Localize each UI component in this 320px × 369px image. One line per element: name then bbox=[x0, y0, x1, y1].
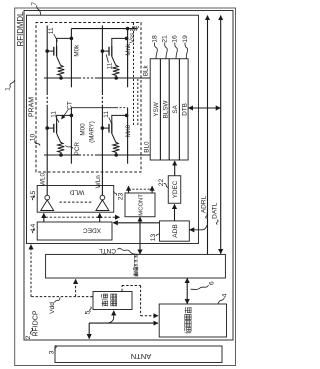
svg-text:7: 7 bbox=[31, 2, 38, 6]
leader 11 to Mnk transistor bbox=[106, 55, 108, 63]
dashed connector of MCONT output arrows bbox=[129, 188, 153, 190]
arrow YDEC to column block bbox=[174, 161, 176, 175]
YDEC box 22 bbox=[168, 176, 181, 204]
memory cell Mn0: bitline contact dot bbox=[114, 153, 118, 157]
source rail of cells Mn0 row bbox=[127, 108, 129, 164]
Vdd dashed arrow into RFIDMDL bbox=[30, 245, 32, 297]
leader from 3 to ANTN box bbox=[55, 345, 57, 350]
RFIDCP chip box 2 bbox=[24, 11, 233, 341]
RFIDMDL module box 7 bbox=[27, 15, 199, 243]
svg-text:XDEC: XDEC bbox=[83, 227, 102, 234]
leader Vdd to trunk bbox=[55, 297, 61, 302]
Vss line right column bbox=[71, 28, 136, 30]
memory cell M0k: phase change resistor PCR bbox=[57, 56, 65, 78]
row divider BLSW/SA bbox=[168, 59, 170, 160]
memory cell M0k: drain dot on source rail bbox=[70, 37, 74, 41]
leader from 23 to WLD box bottom bbox=[114, 191, 117, 195]
arrow ADB to YDEC bbox=[174, 204, 176, 220]
memory cell Mn0: gate dot on word line bbox=[101, 126, 105, 130]
memory cell M00: drain lead to source rail bbox=[57, 115, 72, 123]
svg-text:BLk: BLk bbox=[143, 64, 150, 76]
svg-text:11: 11 bbox=[50, 111, 57, 118]
junction dot Mnk rail on Vss line bbox=[126, 27, 130, 31]
svg-text:PRAM: PRAM bbox=[28, 97, 35, 117]
memory cell Mn0: gate stub to word line bbox=[102, 127, 109, 129]
memory cell M00: gate stub to word line bbox=[47, 127, 54, 129]
bit line BLk bbox=[44, 77, 79, 79]
svg-text:2: 2 bbox=[25, 335, 32, 339]
double arrow 6 control logic to transceiver bbox=[186, 278, 188, 303]
svg-text:BLSW: BLSW bbox=[162, 100, 169, 118]
svg-text:6: 6 bbox=[209, 281, 216, 285]
driver output circle WLn bbox=[100, 195, 105, 200]
leader 11 to Mn0 transistor bbox=[109, 118, 112, 124]
memory cell Mn0: transistor gate bar bbox=[108, 124, 110, 133]
svg-text:SA: SA bbox=[172, 104, 179, 113]
antenna box ANTN 3 bbox=[55, 346, 222, 363]
MCONT output arrow upper bbox=[128, 186, 130, 192]
svg-text:Vdd: Vdd bbox=[49, 302, 56, 314]
svg-text:Vss: Vss bbox=[129, 33, 136, 44]
tilde on DATL label bbox=[216, 220, 218, 225]
arrow XDEC to WLD lower bbox=[99, 213, 101, 221]
svg-text:CT: CT bbox=[67, 101, 74, 110]
svg-text:23: 23 bbox=[118, 193, 125, 201]
Vdd dashed branch into control logic bbox=[75, 279, 77, 296]
bit line BL0 bbox=[44, 154, 79, 156]
leader 11 to M00 transistor bbox=[56, 118, 59, 123]
arrow ADB to XDEC bbox=[113, 222, 159, 224]
svg-text:11: 11 bbox=[106, 62, 113, 69]
leader from 14 to XDEC box bbox=[32, 229, 34, 233]
row divider SA/DTB bbox=[178, 59, 180, 160]
memory cell Mn0: phase change resistor PCR bbox=[112, 133, 120, 155]
memory cell M0k: gate dot on word line bbox=[45, 49, 49, 53]
source rail of cells M00 row bbox=[70, 108, 72, 164]
driver output circle WL0 bbox=[45, 195, 50, 200]
leader from 13 to ADB box bbox=[156, 234, 160, 236]
memory cell Mnk: gate dot on word line bbox=[101, 49, 105, 53]
svg-text:RFIDMDL: RFIDMDL bbox=[16, 11, 25, 46]
memory cell Mnk: transistor channel bar bbox=[111, 46, 113, 56]
branch ADRL to ADB bbox=[190, 225, 208, 230]
svg-text:3: 3 bbox=[49, 350, 56, 354]
transceiver box 4 (RF unit) bbox=[159, 304, 226, 337]
svg-text:DATL: DATL bbox=[211, 202, 218, 219]
Vdd dashed arrow into transceiver bbox=[141, 315, 158, 317]
outer RFID device box 1 bbox=[15, 8, 236, 366]
svg-text:M0k: M0k bbox=[73, 44, 80, 57]
memory cell M00: phase change resistor PCR bbox=[57, 133, 65, 155]
MCONT box bbox=[125, 193, 155, 217]
svg-text:11: 11 bbox=[103, 111, 110, 118]
leader from 5 to power box corner bbox=[90, 307, 92, 312]
source rail of cells Mnk row bbox=[127, 29, 129, 88]
leader 19 to block bbox=[185, 43, 188, 59]
transceiver label (soujushin-bu) bbox=[185, 328, 191, 333]
dashed control line between XDEC and WLD bbox=[46, 216, 120, 218]
svg-text:DTB: DTB bbox=[181, 103, 188, 116]
leader 16 to block bbox=[175, 43, 178, 59]
Vdd dashed trunk from power circuit bbox=[31, 296, 93, 298]
Vdd dashed branch to transceiver: stub from power box bbox=[121, 286, 123, 292]
control logic box bbox=[46, 254, 226, 278]
Vdd dashed branch to transceiver: vertical jog bbox=[122, 285, 141, 287]
memory cell M00: gate dot on word line bbox=[45, 126, 49, 130]
leader from CNTL to wire bbox=[118, 248, 139, 254]
memory cell M0k: drain lead to source rail bbox=[57, 38, 72, 46]
memory cell M00: bitline contact dot bbox=[59, 153, 63, 157]
memory cell Mnk: bitline contact dot bbox=[114, 76, 118, 80]
memory cell Mnk: transistor gate bar bbox=[108, 47, 110, 56]
memory cell Mn0: drain lead to source rail bbox=[112, 115, 127, 123]
svg-text:WLD: WLD bbox=[69, 189, 84, 196]
svg-text:M00: M00 bbox=[80, 123, 87, 136]
CNTL wire MCONT to control logic bbox=[139, 217, 141, 254]
svg-text:4: 4 bbox=[222, 293, 229, 297]
Vss stub left column bbox=[71, 107, 116, 109]
svg-text:16: 16 bbox=[172, 35, 179, 43]
word line driver triangle WL0 bbox=[41, 200, 54, 211]
memory cell Mn0: drain dot on source rail bbox=[125, 114, 129, 118]
ADB box 13 bbox=[160, 221, 190, 241]
memory cell M0k: transistor channel bar bbox=[56, 46, 58, 56]
memory cell Mnk: drain dot on source rail bbox=[125, 37, 129, 41]
control logic label (seigyo logic) bbox=[134, 272, 138, 276]
tilde on ADRL label bbox=[206, 214, 208, 219]
leader from 6 to double arrow bbox=[191, 285, 209, 289]
leader arrow CT to cell contact bbox=[62, 109, 69, 119]
RF wire pad to transceiver bbox=[89, 322, 158, 324]
DATL bus line bbox=[220, 16, 222, 254]
svg-text:RFIDCP: RFIDCP bbox=[33, 310, 40, 336]
power circuit box 5 bbox=[93, 292, 132, 310]
dashed more-drivers mark inside WLD bbox=[60, 201, 93, 203]
WLD box 15 bbox=[37, 186, 114, 213]
svg-text:YSW: YSW bbox=[153, 102, 160, 116]
RF branch to power circuit bbox=[107, 311, 114, 323]
word line WLn bbox=[101, 107, 103, 195]
svg-text:19: 19 bbox=[182, 35, 189, 43]
svg-text:WL0: WL0 bbox=[40, 173, 47, 186]
svg-text:21: 21 bbox=[162, 35, 169, 43]
word line driver triangle WLn bbox=[96, 200, 109, 211]
column circuit block bbox=[150, 59, 188, 160]
leader from 15 to WLD box bbox=[32, 196, 34, 200]
svg-text:Mnk: Mnk bbox=[125, 43, 132, 56]
memory cell M00: transistor channel bar bbox=[56, 123, 58, 133]
leader PCR to resistor bbox=[65, 146, 73, 149]
svg-text:MCONT: MCONT bbox=[138, 194, 144, 216]
svg-text:22: 22 bbox=[158, 179, 165, 187]
leader 21 to block bbox=[165, 43, 168, 59]
PRAM dashed boundary box bbox=[36, 23, 141, 173]
leader from 10 into array bbox=[35, 142, 41, 146]
memory cell M00: transistor gate bar bbox=[53, 124, 55, 133]
svg-text:11: 11 bbox=[48, 27, 55, 34]
source rail of cells M0k row bbox=[70, 29, 72, 88]
leader 11 to M0k transistor bbox=[54, 34, 58, 42]
memory cell Mnk: phase change resistor PCR bbox=[112, 56, 120, 78]
svg-text:10: 10 bbox=[30, 134, 37, 142]
memory cell M0k: bitline contact dot bbox=[59, 76, 63, 80]
leader from 2 to RFIDCP text bbox=[30, 328, 32, 334]
word line WL0 bbox=[46, 107, 48, 195]
svg-text:CNTL: CNTL bbox=[99, 247, 116, 254]
ADRL bus line bbox=[207, 16, 209, 255]
memory cell M0k: transistor gate bar bbox=[53, 47, 55, 56]
svg-text:BL0: BL0 bbox=[143, 141, 150, 153]
svg-text:18: 18 bbox=[151, 35, 158, 43]
leader from 22 to YDEC box bbox=[164, 183, 168, 187]
memory cell Mnk: gate stub to word line bbox=[102, 50, 109, 52]
svg-text:ANTN: ANTN bbox=[131, 352, 151, 361]
leader from 4 to transceiver box edge bbox=[218, 298, 225, 304]
svg-text:13: 13 bbox=[150, 234, 157, 242]
leader from 1 to outer box edge bbox=[10, 80, 15, 88]
MCONT output arrow lower bbox=[151, 186, 153, 192]
arrow XDEC to WLD upper bbox=[43, 213, 45, 221]
power circuit label (dengen kairo) bbox=[102, 301, 108, 307]
svg-text:WLn: WLn bbox=[95, 175, 102, 188]
leader 18 to block bbox=[154, 43, 157, 59]
svg-text:PCR: PCR bbox=[74, 142, 81, 156]
svg-text:Mn0: Mn0 bbox=[125, 124, 132, 137]
leader from 7 to RFIDMDL box edge bbox=[37, 6, 41, 16]
svg-text:(MARY): (MARY) bbox=[88, 121, 95, 143]
svg-text:ADRL: ADRL bbox=[201, 195, 208, 213]
svg-text:1: 1 bbox=[5, 87, 12, 91]
memory cell Mnk: drain lead to source rail bbox=[112, 38, 127, 46]
array continuation dashes row bbox=[133, 23, 135, 126]
memory cell Mn0: transistor channel bar bbox=[111, 123, 113, 133]
XDEC box 14 bbox=[37, 222, 112, 240]
double arrow DTB to DATL bbox=[189, 107, 221, 109]
svg-text:ADB: ADB bbox=[172, 224, 179, 237]
Vss ground hatching bbox=[130, 26, 133, 31]
memory cell M00: drain dot on source rail bbox=[70, 114, 74, 118]
svg-text:YDEC: YDEC bbox=[172, 180, 179, 198]
row divider YSW/BLSW bbox=[159, 59, 161, 160]
Vdd dashed branch to transceiver: horizontal run bbox=[140, 286, 142, 316]
antenna pad arrow to chip edge bbox=[88, 323, 90, 339]
memory cell M0k: gate stub to word line bbox=[47, 50, 54, 52]
